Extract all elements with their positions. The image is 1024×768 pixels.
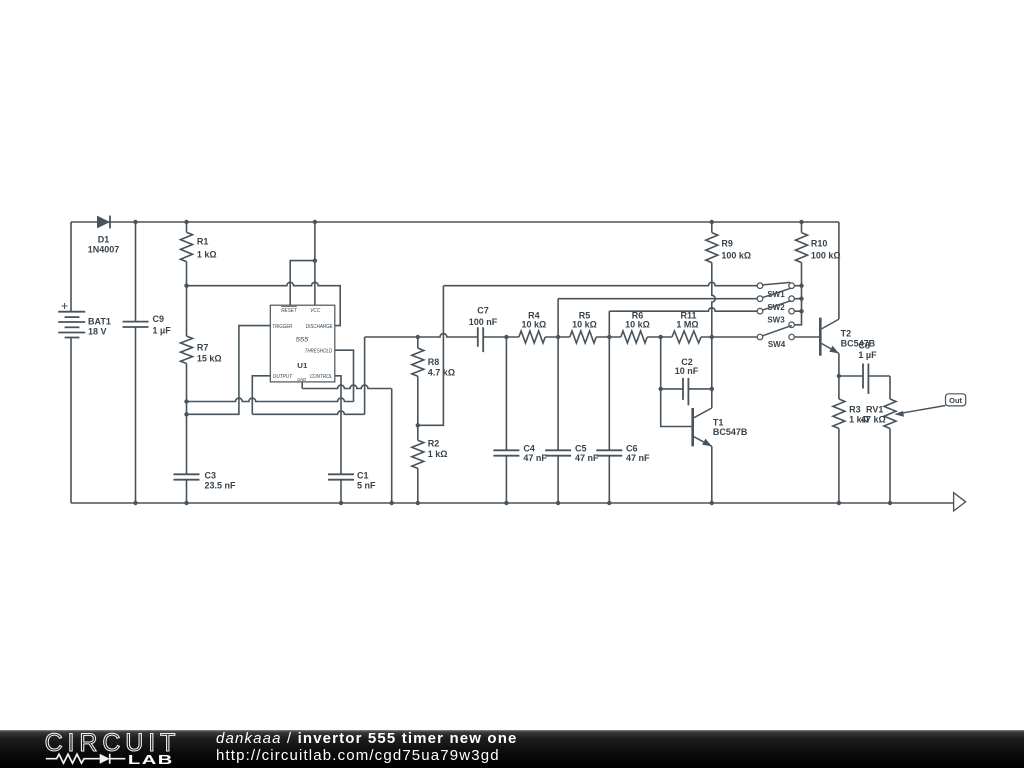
transistor T1 BC547B: [661, 337, 748, 503]
svg-text:T1: T1: [713, 417, 724, 427]
switch SW4: [757, 322, 794, 349]
capacitor C1: [328, 470, 376, 503]
svg-text:C1: C1: [357, 470, 369, 480]
wire TRIGGER to left node: [187, 326, 271, 415]
battery BAT1: [58, 303, 111, 338]
svg-text:1 µF: 1 µF: [858, 350, 877, 360]
resistor R5: [570, 310, 597, 343]
logo diode: [100, 754, 110, 764]
svg-text:100 kΩ: 100 kΩ: [811, 250, 841, 260]
svg-text:C3: C3: [205, 470, 217, 480]
svg-text:10 nF: 10 nF: [675, 366, 699, 376]
svg-text:D1: D1: [98, 235, 110, 245]
svg-text:U1: U1: [297, 363, 307, 370]
diode D1: [88, 216, 120, 255]
wire R11 to SW4: [701, 336, 757, 338]
switch SW3: [757, 301, 794, 325]
svg-text:18 V: 18 V: [88, 326, 107, 336]
svg-text:C4: C4: [523, 443, 535, 453]
svg-text:SW3: SW3: [767, 315, 785, 324]
transistor T2 BC547B: [819, 222, 876, 376]
svg-text:23.5 nF: 23.5 nF: [205, 480, 237, 490]
wire VCC riser from top rail: [314, 222, 316, 305]
svg-text:OUTPUT: OUTPUT: [273, 374, 293, 380]
svg-text:1 µF: 1 µF: [153, 326, 172, 336]
svg-text:1 kΩ: 1 kΩ: [197, 249, 217, 259]
svg-text:SW4: SW4: [768, 340, 786, 349]
wire SW4 right contact to T2 base: [794, 336, 819, 338]
wire left rail to battery top: [70, 222, 72, 312]
resistor R11: [672, 310, 701, 343]
svg-text:R2: R2: [428, 439, 440, 449]
svg-text:5 nF: 5 nF: [357, 480, 376, 490]
svg-text:BC547B: BC547B: [713, 427, 748, 437]
CircuitLab logo: [0, 730, 190, 768]
wire top supply rail: [71, 221, 839, 223]
svg-text:GND: GND: [297, 377, 306, 383]
resistor R7: [181, 286, 222, 475]
capacitor C7: [469, 306, 519, 352]
svg-text:R3: R3: [849, 404, 861, 414]
wire R4 to R5: [545, 336, 570, 338]
wire battery bottom to ground rail: [70, 338, 72, 504]
capacitor C4: [493, 337, 547, 503]
wire GND of 555 to ground rail: [302, 382, 392, 503]
wire riser + switch row 2 (to SW2): [558, 299, 757, 337]
svg-text:100 nF: 100 nF: [469, 317, 498, 327]
svg-text:RESET: RESET: [281, 308, 297, 314]
svg-text:R10: R10: [811, 238, 828, 248]
capacitor C6: [596, 337, 650, 503]
svg-text:R9: R9: [721, 238, 733, 248]
wire R5 to R6: [596, 336, 621, 338]
svg-text:100 kΩ: 100 kΩ: [721, 250, 751, 260]
switch SW2: [757, 288, 794, 312]
potentiometer RV1: [861, 376, 946, 503]
output flag Out: [946, 394, 966, 406]
svg-text:4.7 kΩ: 4.7 kΩ: [428, 368, 455, 378]
svg-text:R8: R8: [428, 357, 440, 367]
resistor R10: [794, 222, 840, 325]
capacitor C8: [839, 341, 890, 394]
wire SW2 right to bus: [794, 298, 801, 300]
wire main chain from output riser to C7: [365, 334, 478, 337]
capacitor C9: [123, 222, 172, 503]
resistor R3: [833, 376, 869, 503]
resistor R1: [181, 222, 217, 286]
capacitor C5: [545, 337, 599, 503]
svg-text:LAB: LAB: [128, 752, 174, 767]
svg-text:555: 555: [296, 337, 309, 344]
svg-text:1 MΩ: 1 MΩ: [676, 319, 698, 329]
op-amp 555 IC box U1: [270, 305, 335, 383]
wire R8/R2 node up to switch row 1: [418, 286, 444, 426]
wire THRESHOLD to R7/C3 node: [187, 350, 354, 401]
svg-text:R1: R1: [197, 237, 209, 247]
wire SW3 right to bus: [794, 310, 801, 312]
capacitor C2: [661, 337, 712, 405]
wire OUTPUT down and right: [252, 337, 364, 414]
svg-text:1 kΩ: 1 kΩ: [428, 449, 448, 459]
wire R1/R7 node to DISCHARGE: [187, 282, 341, 325]
wire CONTROL down to C1: [335, 376, 341, 475]
svg-text:C5: C5: [575, 443, 587, 453]
svg-text:T2: T2: [841, 328, 852, 338]
svg-text:15 kΩ: 15 kΩ: [197, 354, 222, 364]
svg-text:10 kΩ: 10 kΩ: [572, 319, 597, 329]
svg-text:DISCHARGE: DISCHARGE: [306, 324, 333, 330]
ground rail end arrow: [954, 493, 966, 511]
resistor R2: [412, 439, 448, 503]
resistor R9: [706, 222, 751, 337]
wire RESET staple: [290, 261, 315, 306]
svg-text:10 kΩ: 10 kΩ: [522, 319, 547, 329]
svg-text:47 kΩ: 47 kΩ: [861, 415, 886, 425]
svg-text:C8: C8: [859, 341, 871, 351]
svg-text:47 nF: 47 nF: [575, 453, 599, 463]
svg-text:THRESHOLD: THRESHOLD: [305, 348, 333, 354]
svg-text:RV1: RV1: [866, 404, 883, 414]
svg-text:VCC: VCC: [310, 308, 320, 314]
resistor R8: [412, 337, 455, 440]
capacitor C3: [174, 470, 237, 503]
svg-text:BAT1: BAT1: [88, 317, 111, 327]
resistor R6: [621, 310, 650, 343]
svg-text:10 kΩ: 10 kΩ: [625, 319, 650, 329]
logo resistor: [46, 754, 100, 763]
svg-text:C6: C6: [626, 443, 638, 453]
svg-text:C7: C7: [477, 306, 489, 316]
wire riser + switch row 3 (to SW3): [609, 308, 757, 337]
svg-text:C9: C9: [153, 314, 165, 324]
wire R6 to R11: [647, 336, 672, 338]
svg-text:Out: Out: [949, 396, 962, 405]
wire bottom ground rail: [71, 502, 954, 504]
wire SW1 right to bus: [794, 285, 801, 287]
svg-text:CONTROL: CONTROL: [310, 374, 333, 380]
svg-text:47 nF: 47 nF: [523, 453, 547, 463]
wire switch row 1 (to SW1): [443, 282, 757, 285]
resistor R4: [519, 310, 546, 343]
svg-text:R7: R7: [197, 343, 209, 353]
svg-text:TRIGGER: TRIGGER: [272, 324, 292, 330]
svg-text:47 nF: 47 nF: [626, 453, 650, 463]
switch SW1: [757, 282, 794, 298]
svg-text:1N4007: 1N4007: [88, 245, 120, 255]
